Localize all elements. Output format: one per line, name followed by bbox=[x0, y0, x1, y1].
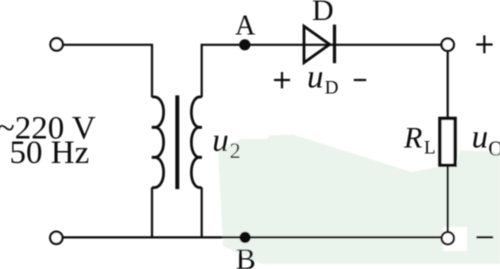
transformer primary coil L1 bbox=[152, 97, 164, 188]
svg-text:B: B bbox=[236, 243, 256, 269]
svg-text:L: L bbox=[424, 138, 436, 159]
terminal top-right bbox=[442, 39, 454, 51]
diode D triangle bbox=[304, 26, 330, 62]
wire primary bottom stub bbox=[151, 187, 153, 237]
white patch around bottom-right terminal bbox=[443, 227, 467, 251]
wire top-left: from top-left terminal right then down to primary coil bbox=[63, 45, 152, 97]
transformer core bbox=[175, 95, 179, 189]
minus sign output bbox=[476, 236, 493, 238]
plus sign output bbox=[476, 35, 492, 53]
resistor RL body bbox=[440, 118, 455, 165]
wire right vertical lower: resistor to terminal bbox=[447, 166, 449, 231]
svg-text:u: u bbox=[212, 123, 229, 159]
svg-text:O: O bbox=[488, 137, 500, 161]
wire secondary bottom stub bbox=[201, 187, 203, 237]
wire bottom horizontal: from bottom-left terminal to bottom-right terminal bbox=[63, 236, 441, 238]
minus sign right of diode bbox=[354, 79, 366, 81]
wire right vertical upper: terminal to resistor bbox=[447, 51, 449, 118]
svg-text:D: D bbox=[312, 0, 334, 27]
plus sign left of diode bbox=[274, 72, 290, 88]
terminal bottom-left bbox=[50, 232, 62, 244]
node A bbox=[239, 39, 250, 50]
terminal top-left bbox=[50, 38, 62, 50]
svg-text:D: D bbox=[325, 77, 339, 98]
watermark (pale green, left/main facet) bbox=[218, 135, 413, 265]
svg-text:A: A bbox=[235, 11, 256, 42]
diode D cathode bar bbox=[333, 25, 336, 64]
terminal bottom-right bbox=[442, 232, 454, 244]
node B bbox=[240, 232, 251, 243]
svg-text:50 Hz: 50 Hz bbox=[10, 135, 90, 171]
svg-text:R: R bbox=[403, 121, 422, 154]
watermark (pale green, right facet) bbox=[412, 150, 500, 264]
wire secondary top: from coil up and right to top-right terminal bbox=[202, 45, 442, 97]
svg-text:u: u bbox=[472, 120, 489, 156]
svg-text:u: u bbox=[307, 60, 324, 96]
transformer secondary coil L2 bbox=[191, 97, 201, 188]
svg-text:2: 2 bbox=[230, 138, 241, 163]
